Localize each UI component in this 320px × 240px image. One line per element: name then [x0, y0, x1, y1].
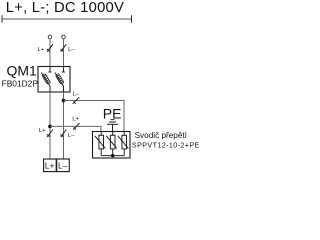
svg-text:L+: L+	[72, 116, 79, 122]
svg-text:L+: L+	[39, 128, 46, 134]
switch L+ on lower horizontal	[73, 123, 80, 130]
switch L- on upper horizontal	[73, 97, 80, 104]
junction dot right (node to SPD L-)	[62, 99, 66, 103]
svg-text:QM1: QM1	[7, 63, 38, 79]
svg-text:L+: L+	[38, 47, 45, 53]
switch L+ top	[47, 44, 53, 52]
svg-text:L–: L–	[58, 160, 68, 170]
svg-text:L–: L–	[68, 133, 75, 139]
terminal circle right	[62, 35, 66, 39]
SPD bottom bus	[101, 155, 124, 157]
wire right vertical top	[63, 39, 65, 67]
switch L- bottom right wire	[60, 130, 66, 138]
svg-text:L–: L–	[68, 47, 75, 53]
bus right tick	[131, 15, 133, 22]
wire horizontal lower to SPD	[50, 126, 101, 131]
wire right vertical bottom	[63, 92, 65, 159]
varistor 3	[118, 132, 129, 156]
svg-text:L+, L-; DC 1000V: L+, L-; DC 1000V	[6, 0, 124, 16]
junction dot left (node to SPD L+)	[48, 125, 52, 129]
QM1 pole 1 (fuse-switch)	[41, 67, 51, 92]
svg-text:L–: L–	[73, 91, 80, 97]
svg-text:PE: PE	[103, 105, 122, 121]
wire left vertical top	[49, 39, 51, 67]
earth symbol PE	[107, 120, 118, 132]
wire left vertical bottom	[49, 92, 51, 159]
terminal circle left	[48, 35, 52, 39]
svg-text:L+: L+	[45, 160, 55, 170]
switch L+ bottom left wire	[47, 130, 53, 138]
svg-text:SPPVT12-10-2+PE: SPPVT12-10-2+PE	[132, 140, 200, 149]
breaker QM1 box	[38, 67, 70, 93]
terminal box L+	[44, 159, 57, 172]
junction dot SPD bus	[111, 154, 115, 158]
terminal box L-	[57, 159, 70, 172]
svg-text:Svodič přepětí: Svodič přepětí	[135, 131, 188, 140]
bus line	[2, 18, 132, 20]
varistor 1	[95, 132, 106, 156]
svg-text:FB01D2P: FB01D2P	[2, 78, 39, 88]
varistor 2	[106, 132, 117, 156]
switch L- top	[60, 44, 66, 52]
QM1 pole 2 (fuse-switch)	[55, 67, 65, 92]
bus left tick	[1, 15, 3, 22]
wire horizontal upper to SPD	[64, 101, 125, 132]
SPD box	[93, 132, 131, 159]
